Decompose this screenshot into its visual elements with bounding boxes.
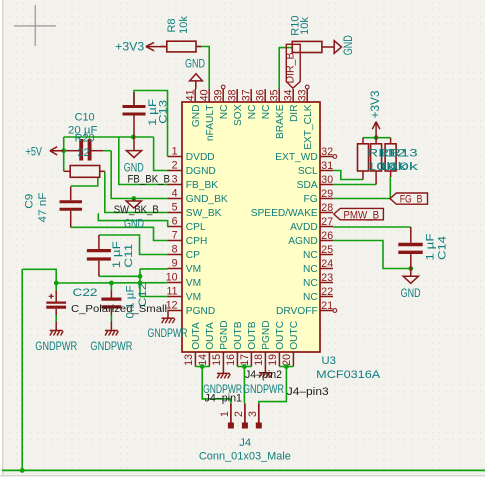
svg-text:29: 29 — [321, 188, 333, 200]
power +3V3 (at R8) — [146, 46, 167, 48]
wire C10 right to pin4 GND_BK — [111, 151, 167, 199]
svg-text:DIR_B: DIR_B — [285, 53, 297, 84]
pin 37 NC (top) — [250, 89, 252, 102]
pin 25 NC (right) — [320, 254, 333, 256]
pin 29 FG (right) — [320, 198, 333, 200]
pin 9 VM (left) — [168, 268, 183, 270]
pin 11 VM (left) — [168, 296, 183, 298]
resistor R11 — [358, 144, 369, 171]
svg-text:C10: C10 — [75, 111, 95, 123]
svg-text:1: 1 — [219, 411, 231, 417]
svg-text:nFAULT: nFAULT — [205, 105, 216, 142]
pin 18 PGND (bottom) — [264, 352, 266, 367]
svg-text:17: 17 — [239, 354, 251, 366]
power GNDPWR (C12) — [105, 330, 118, 332]
wire riser +5V junction to y137 — [63, 137, 65, 151]
svg-text:NC: NC — [303, 292, 318, 303]
svg-text:SDA: SDA — [297, 180, 318, 191]
wire pin35 BRAKE to R10 — [279, 48, 292, 89]
wire GND bus y137 — [64, 136, 154, 138]
svg-text:22: 22 — [321, 286, 333, 298]
wire R20 bottom-right riser to C9 top — [71, 177, 98, 186]
svg-text:39: 39 — [212, 89, 224, 101]
pin 15 PGND (bottom) — [222, 352, 224, 367]
wire pin26 AGND to C14 bottom — [333, 241, 411, 269]
svg-text:OUTB: OUTB — [247, 321, 258, 350]
svg-text:OUTA: OUTA — [191, 322, 202, 350]
wire R20 right to pin5 SW_BK — [105, 171, 168, 212]
svg-text:FG_B: FG_B — [400, 194, 423, 206]
svg-text:12: 12 — [166, 300, 178, 312]
pin 28 SPEED/WAKE (right) — [320, 212, 333, 214]
wire OUTC to J4 pin3 — [279, 366, 293, 368]
global label DIR_B — [286, 44, 300, 88]
power GND (pin4 GND_BK) — [133, 199, 135, 202]
svg-text:DRVOFF: DRVOFF — [276, 306, 318, 317]
R11 bottom pin — [362, 171, 364, 180]
svg-text:10k: 10k — [389, 161, 419, 173]
svg-text:16: 16 — [225, 354, 237, 366]
crosshair origin marker — [14, 25, 56, 27]
svg-text:GNDPWR: GNDPWR — [243, 384, 284, 396]
svg-text:22: 22 — [78, 147, 90, 159]
capacitor C12 — [101, 298, 121, 301]
svg-text:38: 38 — [226, 89, 238, 101]
junction dots — [61, 148, 66, 153]
svg-text:J4–pin1: J4–pin1 — [205, 393, 243, 405]
svg-text:47 nF: 47 nF — [37, 192, 49, 222]
resistor R8 — [167, 41, 196, 52]
svg-text:33: 33 — [296, 89, 308, 101]
wire left rail — [21, 269, 23, 470]
svg-text:+3V3: +3V3 — [115, 42, 144, 54]
wire +5V node — [50, 150, 64, 152]
wire pin29 FG to FG_B label — [333, 198, 390, 200]
wire pin31 SCL to R11 — [333, 171, 363, 180]
svg-text:EXT_WD: EXT_WD — [275, 152, 317, 163]
svg-text:9: 9 — [172, 258, 178, 270]
svg-text:GNDPWR: GNDPWR — [35, 341, 77, 353]
capacitor C14 — [398, 243, 422, 247]
svg-text:GND: GND — [191, 105, 202, 128]
global label FG_B — [390, 193, 428, 204]
svg-text:24: 24 — [321, 258, 333, 270]
svg-text:NC: NC — [261, 105, 272, 120]
wire to pin9 VM — [140, 268, 168, 270]
pin 16 OUTB (bottom) — [236, 352, 238, 367]
svg-text:BRAKE: BRAKE — [275, 104, 286, 139]
svg-text:C22: C22 — [73, 287, 98, 299]
svg-text:VM: VM — [186, 292, 201, 303]
svg-text:SW_BK: SW_BK — [186, 208, 222, 219]
svg-text:GNDPWR: GNDPWR — [148, 328, 188, 340]
svg-text:26: 26 — [321, 230, 333, 242]
svg-text:FB_BK: FB_BK — [186, 180, 218, 191]
power GND (pin41, up) — [190, 74, 203, 81]
pin 38 SOX (top) — [236, 89, 238, 102]
svg-text:35: 35 — [268, 89, 280, 101]
power GNDPWR (pin15 PGND) — [222, 367, 224, 374]
svg-text:21: 21 — [321, 300, 333, 312]
capacitor C22 (polarized) — [46, 302, 66, 304]
svg-text:1: 1 — [172, 146, 178, 158]
svg-text:2: 2 — [172, 160, 178, 172]
wire C12 top — [110, 283, 112, 291]
svg-text:13: 13 — [183, 354, 195, 366]
svg-text:GND: GND — [124, 218, 144, 230]
svg-text:GNDPWR: GNDPWR — [90, 341, 132, 353]
pin 39 NC (top) — [222, 89, 224, 102]
wire pin27 AVDD to C14 — [333, 226, 411, 228]
svg-text:+3V3: +3V3 — [370, 91, 382, 119]
svg-text:SOX: SOX — [233, 104, 244, 126]
power +5V — [50, 150, 64, 152]
svg-text:C14: C14 — [437, 236, 449, 260]
connector J4 Conn_01x03_Male — [230, 403, 232, 422]
svg-text:GND: GND — [343, 35, 355, 55]
IC U3 MCF0316A body — [182, 102, 320, 352]
svg-text:DGND: DGND — [186, 166, 216, 177]
pin 31 SCL (right) — [320, 170, 333, 172]
svg-text:11: 11 — [167, 286, 178, 298]
wire pin30 SDA to R12 — [333, 184, 376, 186]
svg-text:NC: NC — [303, 278, 318, 289]
pin 23 NC (right) — [320, 282, 333, 284]
svg-text:GND: GND — [401, 288, 421, 300]
pin 19 OUTC (bottom) — [278, 352, 280, 367]
svg-text:20: 20 — [281, 354, 293, 366]
power +3V3 (pullups) — [375, 122, 377, 138]
wire to pin11 VM — [140, 296, 168, 298]
svg-text:NC: NC — [219, 105, 230, 120]
svg-text:C11: C11 — [123, 244, 135, 268]
wire R8 to pin40 nFAULT — [196, 47, 209, 90]
svg-text:Conn_01x03_Male: Conn_01x03_Male — [199, 451, 291, 463]
svg-text:CPH: CPH — [186, 236, 208, 247]
svg-text:PGND: PGND — [186, 306, 215, 317]
power GNDPWR (C22) — [50, 330, 63, 332]
svg-text:5: 5 — [172, 202, 178, 214]
pin 26 AGND (right) — [320, 240, 333, 242]
pin 34 DIR (top) — [292, 89, 294, 102]
pin 20 OUTC (bottom) — [292, 352, 294, 367]
wire C13 top to pin1 DVDD — [134, 91, 168, 157]
R13 bottom pin — [390, 171, 392, 177]
pin 12 PGND (left) — [168, 310, 183, 312]
wire C11 top to pin8 CP — [99, 235, 168, 255]
pin 41 GND (top) — [194, 89, 196, 102]
power GND (C13) — [133, 141, 135, 151]
pin 5 SW_BK (left) — [168, 212, 183, 214]
svg-text:OUTB: OUTB — [233, 321, 244, 350]
svg-text:PMW_B: PMW_B — [343, 209, 379, 221]
resistor R13 — [385, 144, 396, 171]
resistor R12 — [371, 144, 382, 171]
pin 14 OUTA (bottom) — [208, 352, 210, 367]
svg-text:32: 32 — [321, 146, 333, 158]
svg-text:EXT_CLK: EXT_CLK — [303, 104, 314, 150]
svg-text:2: 2 — [233, 411, 245, 417]
svg-text:34: 34 — [282, 89, 294, 101]
svg-text:10: 10 — [166, 272, 178, 284]
pin 32 EXT_WD (right) — [320, 156, 333, 158]
svg-text:GND_BK: GND_BK — [186, 194, 228, 205]
svg-text:DIR: DIR — [289, 105, 300, 123]
svg-text:R8: R8 — [166, 18, 178, 32]
R12 bottom pin — [375, 171, 377, 185]
svg-text:31: 31 — [321, 160, 333, 172]
power GNDPWR (pin12 PGND) — [167, 311, 169, 318]
svg-text:SCL: SCL — [298, 166, 318, 177]
pin 3 FB_BK (left) — [168, 184, 183, 186]
svg-text:41: 41 — [184, 89, 196, 101]
wire C9 bottom to pin7 CPH — [71, 227, 168, 240]
svg-text:1 µF: 1 µF — [111, 241, 123, 268]
svg-text:3: 3 — [247, 411, 259, 417]
svg-text:CPL: CPL — [186, 222, 206, 233]
svg-text:AGND: AGND — [288, 236, 317, 247]
power GND (R10, right) — [334, 41, 341, 54]
svg-text:PGND: PGND — [219, 320, 230, 349]
svg-text:J4–pin3: J4–pin3 — [287, 386, 329, 398]
svg-text:MCF0316A: MCF0316A — [316, 369, 381, 381]
pin 4 GND_BK (left) — [168, 198, 183, 200]
pin 30 SDA (right) — [320, 184, 333, 186]
svg-text:U3: U3 — [322, 355, 336, 367]
svg-text:18: 18 — [253, 354, 265, 366]
svg-text:8: 8 — [172, 244, 178, 256]
svg-text:J4: J4 — [239, 437, 251, 449]
pin 6 CPL (left) — [168, 226, 183, 228]
svg-text:OUTC: OUTC — [289, 321, 300, 350]
svg-text:C_Polarized_Small: C_Polarized_Small — [71, 303, 167, 315]
capacitor C11 — [87, 249, 111, 252]
pin 36 NC (top) — [264, 89, 266, 102]
svg-text:J4–pin2: J4–pin2 — [245, 369, 282, 381]
svg-text:SPEED/WAKE: SPEED/WAKE — [251, 208, 318, 219]
svg-text:NC: NC — [303, 264, 318, 275]
power GND (C14) — [410, 269, 412, 277]
capacitor C10 — [79, 139, 83, 161]
unconnected pin markers — [221, 85, 225, 89]
pin 10 VM (left) — [168, 282, 183, 284]
wire VM riser — [139, 269, 141, 297]
wire C11 bottom junction — [99, 275, 140, 277]
pin 33 EXT_CLK (top) — [306, 89, 308, 102]
svg-text:25: 25 — [321, 244, 333, 256]
power GNDPWR (pin18 PGND) — [264, 367, 266, 373]
svg-text:OUTC: OUTC — [275, 321, 286, 350]
svg-text:VM: VM — [186, 278, 201, 289]
wire bottom bus — [2, 469, 485, 471]
svg-text:GND: GND — [185, 59, 205, 71]
svg-text:FG: FG — [304, 194, 318, 205]
pin 17 OUTB (bottom) — [250, 352, 252, 367]
svg-text:R13: R13 — [390, 147, 418, 159]
pin 27 AVDD (right) — [320, 226, 333, 228]
capacitor C9 — [60, 200, 83, 203]
wire C10 right — [92, 150, 104, 152]
svg-text:27: 27 — [321, 216, 333, 228]
pin 22 NC (right) — [320, 296, 333, 298]
svg-text:+5V: +5V — [26, 147, 43, 159]
svg-text:3: 3 — [172, 174, 178, 186]
wire dogleg from left rail — [22, 269, 56, 283]
svg-text:AVDD: AVDD — [290, 222, 318, 233]
svg-text:1 µF: 1 µF — [425, 233, 437, 260]
svg-text:10k: 10k — [178, 16, 190, 34]
wire +5V down to R20 — [63, 151, 65, 172]
wire R13 to FG net — [389, 177, 391, 199]
svg-text:PGND: PGND — [261, 320, 272, 349]
pin 21 DRVOFF (right) — [320, 310, 333, 312]
svg-text:23: 23 — [321, 272, 333, 284]
pin 8 CP (left) — [168, 254, 183, 256]
svg-text:15: 15 — [211, 354, 223, 366]
svg-text:28: 28 — [321, 202, 333, 214]
wire pin5 branch to pin6 CPL — [98, 213, 168, 226]
svg-text:C13: C13 — [158, 100, 170, 124]
svg-text:30: 30 — [321, 174, 333, 186]
svg-text:SW_BK_B: SW_BK_B — [114, 204, 159, 216]
svg-text:4: 4 — [172, 188, 178, 200]
pin 2 DGND (left) — [168, 170, 183, 172]
svg-text:NC: NC — [247, 104, 258, 119]
svg-text:CP: CP — [186, 250, 200, 261]
svg-text:7: 7 — [172, 230, 178, 242]
svg-text:R20: R20 — [75, 133, 95, 145]
wire +5V to C10 left — [64, 150, 80, 152]
resistor R10 — [292, 41, 322, 52]
svg-text:6: 6 — [172, 216, 178, 228]
svg-text:37: 37 — [240, 89, 252, 101]
svg-text:VM: VM — [186, 264, 201, 275]
wire y137 to pin3 FB_BK — [119, 137, 168, 185]
svg-text:OUTA: OUTA — [205, 322, 216, 350]
pin 35 BRAKE (top) — [278, 89, 280, 102]
pin 1 DVDD (left) — [168, 156, 183, 158]
svg-text:NC: NC — [303, 250, 318, 261]
wire y137 to pin2 DGND — [154, 137, 168, 171]
pin 13 OUTA (bottom) — [194, 352, 196, 367]
wire OUTA to J4 pin1 — [195, 366, 209, 368]
pin 40 nFAULT (top) — [208, 89, 210, 102]
wire OUTB to J4 pin2 — [237, 366, 251, 368]
global label PMW_B — [334, 208, 384, 219]
svg-text:36: 36 — [254, 89, 266, 101]
svg-text:14: 14 — [197, 354, 209, 366]
svg-text:C9: C9 — [24, 194, 36, 209]
svg-text:DVDD: DVDD — [186, 152, 215, 163]
wire VM bus y283 — [56, 282, 167, 284]
pin 24 NC (right) — [320, 268, 333, 270]
wire C22 top — [55, 283, 57, 291]
svg-text:40: 40 — [198, 89, 210, 101]
resistor R20 — [70, 166, 100, 178]
capacitor C13 — [123, 105, 146, 108]
pin 7 CPH (left) — [168, 240, 183, 242]
svg-text:19: 19 — [267, 354, 279, 366]
wire R11 R12 R13 tops — [363, 137, 391, 139]
svg-text:10k: 10k — [299, 17, 311, 35]
svg-text:FB_BK_B: FB_BK_B — [128, 173, 171, 185]
